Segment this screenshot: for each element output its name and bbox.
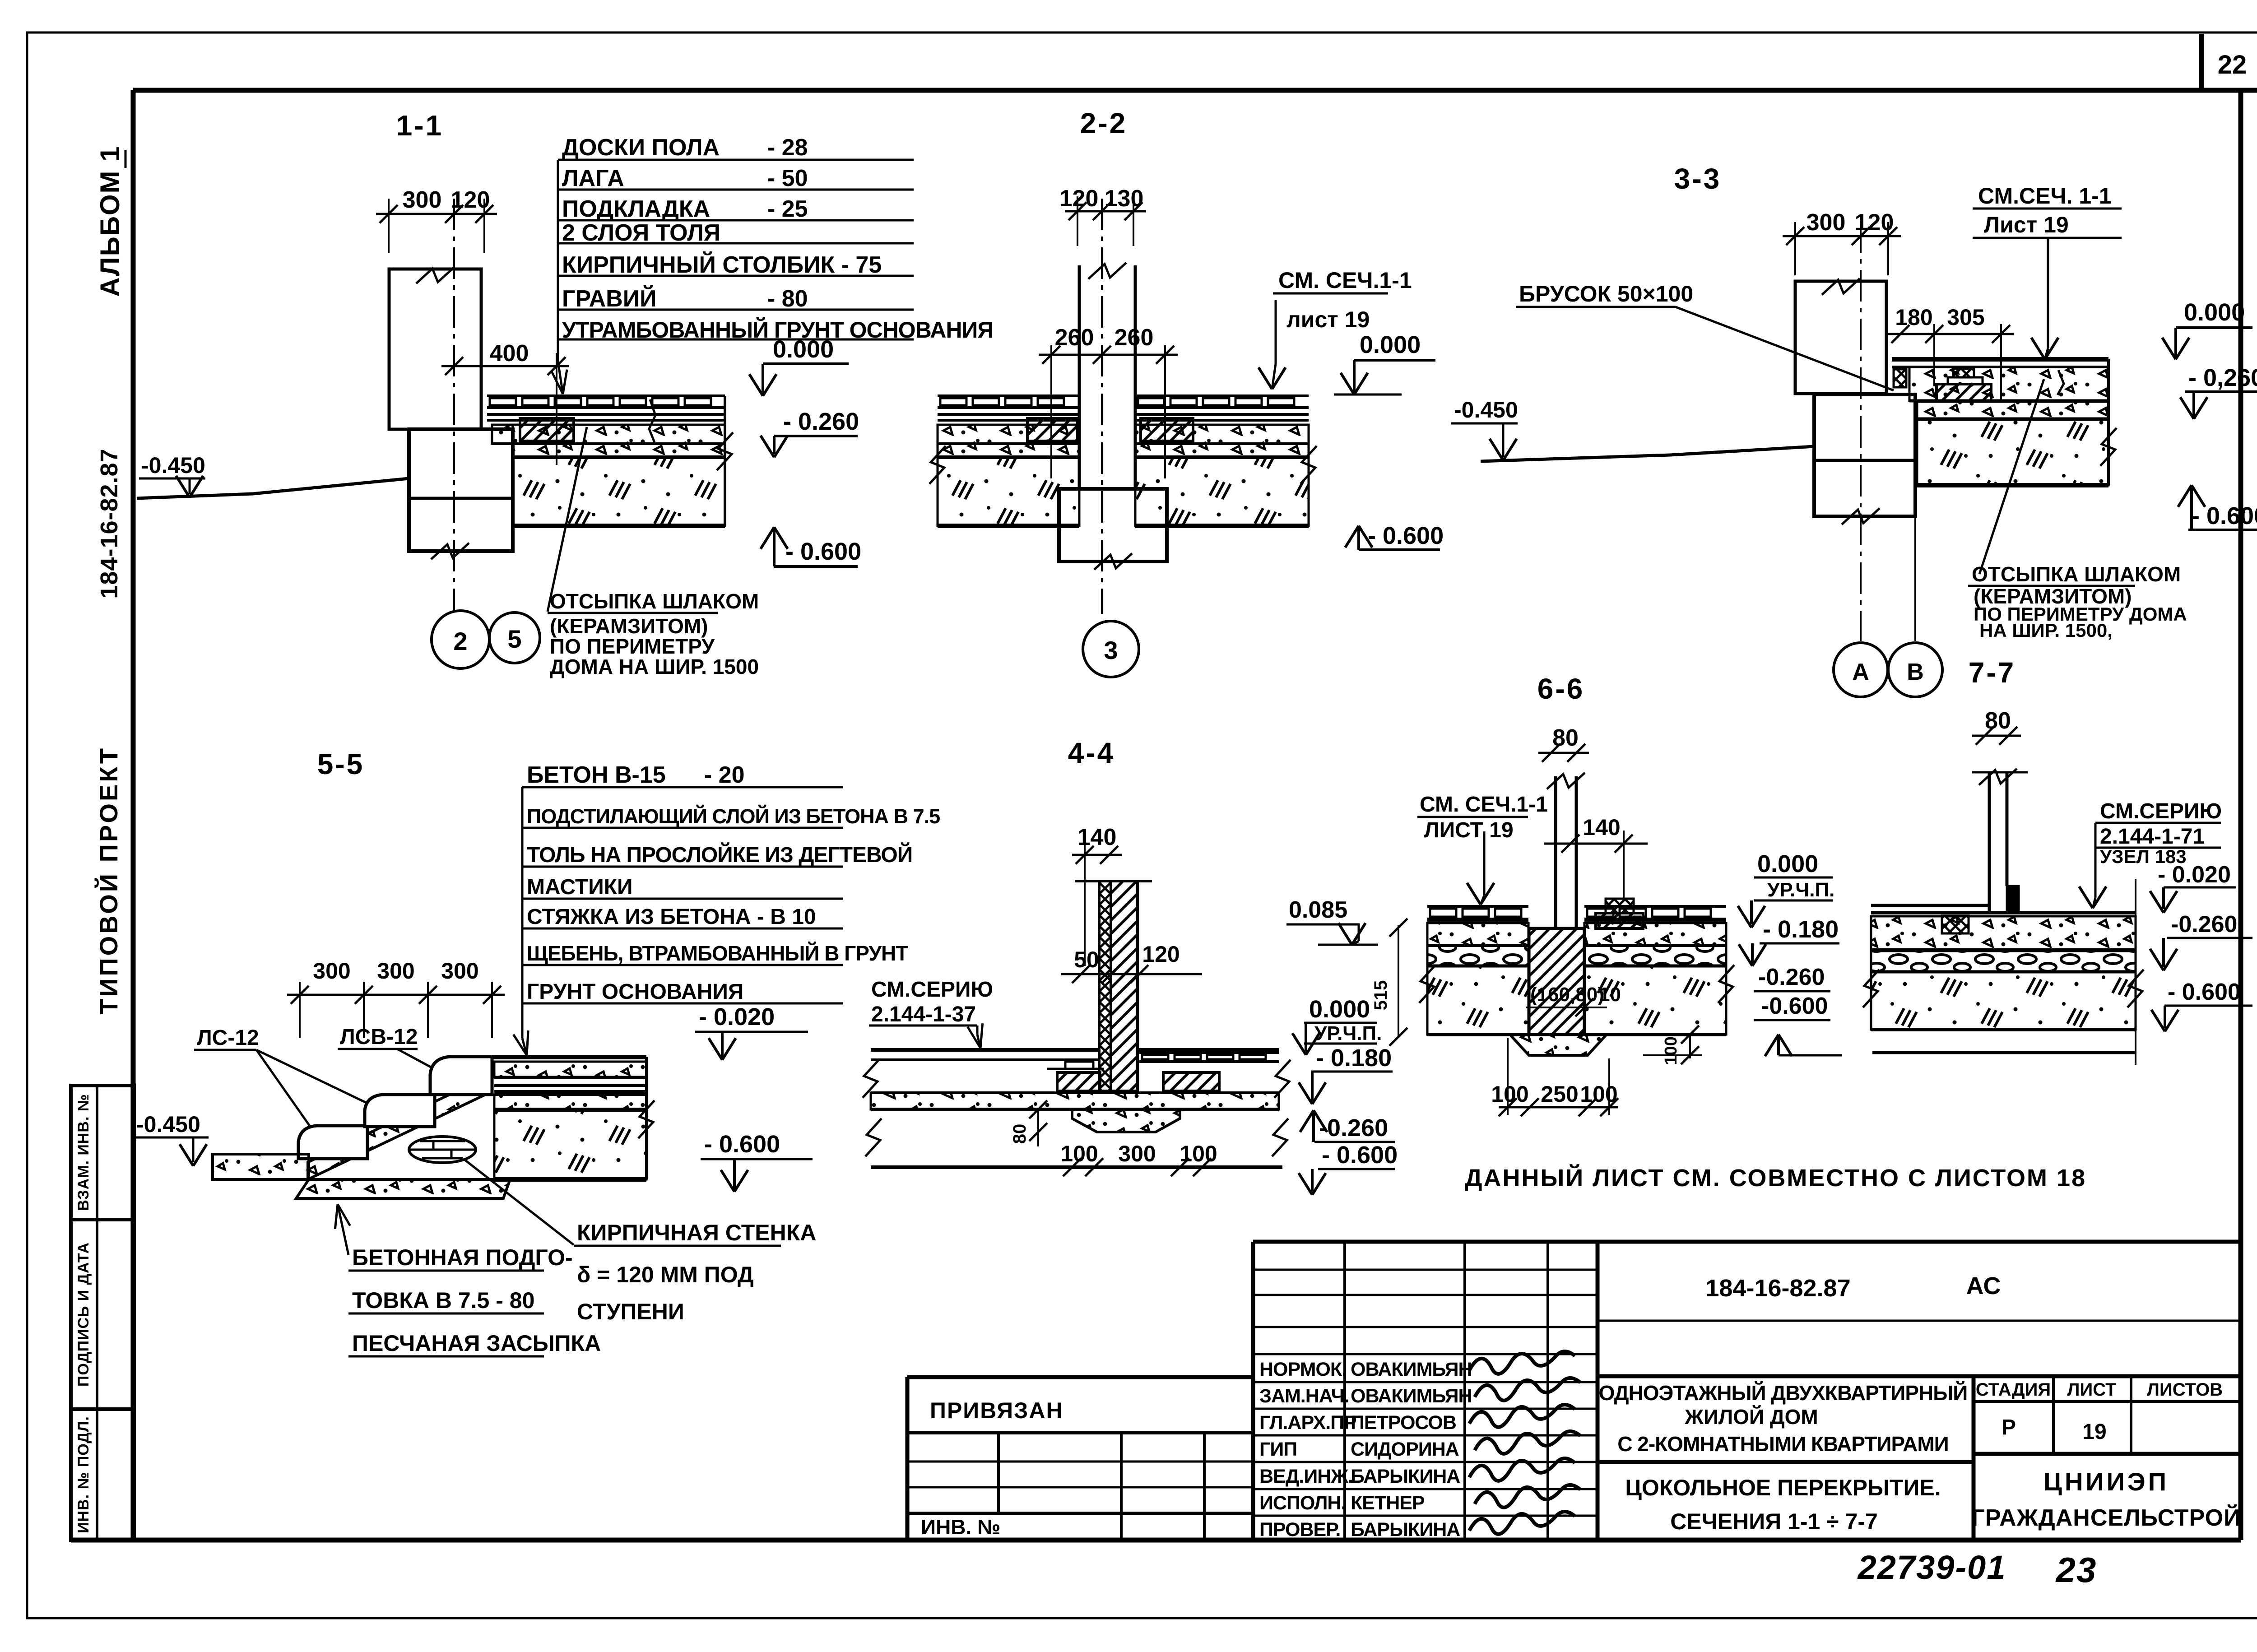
svg-text:КИРПИЧНЫЙ СТОЛБИК - 75: КИРПИЧНЫЙ СТОЛБИК - 75 [562,251,882,278]
step block 2 [365,1095,435,1127]
подкладка block right 4-4 [1163,1072,1219,1091]
sloped stringer 5-5 [308,1074,492,1179]
svg-text:В: В [1907,659,1924,685]
svg-text:ТИПОВОЙ ПРОЕКТ: ТИПОВОЙ ПРОЕКТ [94,746,123,1014]
leader отсыпка 3-3 [1979,379,2044,574]
svg-text:УР.Ч.П.: УР.Ч.П. [1767,879,1834,901]
axis line 3-3 (В) [1914,516,1916,641]
svg-text:-0.450: -0.450 [141,453,205,478]
svg-text:- 0.600: - 0.600 [2168,979,2241,1005]
подкладка block left 4-4 [1057,1072,1100,1091]
svg-text:СМ.СЕРИЮ: СМ.СЕРИЮ [871,978,993,1002]
svg-text:140: 140 [1583,815,1620,840]
svg-text:300: 300 [313,958,350,984]
svg-text:С 2-КОМНАТНЫМИ КВАРТИРАМИ: С 2-КОМНАТНЫМИ КВАРТИРАМИ [1617,1432,1948,1456]
svg-text:0.085: 0.085 [1289,897,1347,923]
extension line 7-7 [2135,879,2136,1065]
soil line 7-7 [1872,1051,2136,1054]
svg-text:1-1: 1-1 [396,109,444,142]
svg-text:100: 100 [1060,1141,1098,1166]
compacted soil 3-3 [1917,420,2108,485]
подкладка 7-7 [1942,916,1969,933]
svg-text:- 0.180: - 0.180 [1763,916,1839,943]
svg-text:6-6: 6-6 [1537,673,1585,705]
crack line 3-3 [2057,370,2064,395]
title block outer lines [1253,1240,2239,1244]
svg-text:ЛС-12: ЛС-12 [197,1026,259,1050]
svg-text:БАРЫКИНА: БАРЫКИНА [1351,1519,1460,1541]
svg-text:УР.Ч.П.: УР.Ч.П. [1314,1022,1382,1044]
svg-text:260: 260 [1115,325,1154,351]
svg-text:ПОДКЛАДКА: ПОДКЛАДКА [562,196,710,222]
svg-text:100: 100 [1662,1036,1681,1065]
svg-text:СТАДИЯ: СТАДИЯ [1976,1380,2051,1400]
svg-text:ГРАЖДАНСЕЛЬСТРОЙ: ГРАЖДАНСЕЛЬСТРОЙ [1972,1504,2241,1531]
svg-text:СЕЧЕНИЯ 1-1 ÷ 7-7: СЕЧЕНИЯ 1-1 ÷ 7-7 [1670,1509,1878,1534]
central pier 6-6 [1529,928,1584,1035]
base slab 5-5 [213,1154,309,1179]
svg-text:ОДНОЭТАЖНЫЙ ДВУХКВАРТИРНЫЙ: ОДНОЭТАЖНЫЙ ДВУХКВАРТИРНЫЙ [1599,1381,1968,1405]
axis bubble А [1834,643,1888,697]
svg-text:100: 100 [1491,1081,1528,1107]
svg-text:НОРМОК.: НОРМОК. [1259,1359,1347,1380]
svg-text:515: 515 [1371,980,1391,1011]
svg-text:- 0,260: - 0,260 [2188,364,2257,391]
svg-text:120: 120 [1142,942,1180,967]
floor slab 1-1 concrete bed [492,425,725,444]
svg-text:300: 300 [377,958,414,984]
svg-text:ЛИСТОВ: ЛИСТОВ [2147,1380,2223,1400]
svg-text:180: 180 [1895,305,1932,330]
svg-text:ЖИЛОЙ ДОМ: ЖИЛОЙ ДОМ [1684,1405,1818,1429]
svg-text:300: 300 [1807,209,1846,236]
title block name rows [1253,1269,1598,1271]
svg-text:0.000: 0.000 [1360,331,1421,358]
brick pillar 2-2 left [1027,418,1077,441]
svg-text:184-16-82.87: 184-16-82.87 [96,448,123,599]
svg-text:- 25: - 25 [767,196,808,222]
svg-text:300: 300 [1118,1141,1156,1166]
floor 6-6 right [1584,905,1726,908]
brick pillar 2-2 right [1141,418,1193,441]
svg-text:СМ. СЕЧ.1-1: СМ. СЕЧ.1-1 [1278,268,1412,293]
svg-text:- 0.600: - 0.600 [704,1131,780,1158]
svg-text:4-4: 4-4 [1068,737,1115,769]
svg-text:ПРИВЯЗАН: ПРИВЯЗАН [930,1398,1063,1423]
wall 3-3 [1795,281,1886,394]
svg-text:ГИП: ГИП [1259,1439,1297,1460]
svg-text:СТЯЖКА ИЗ БЕТОНА - В 10: СТЯЖКА ИЗ БЕТОНА - В 10 [527,905,816,929]
svg-text:ВЕД.ИНЖ.: ВЕД.ИНЖ. [1259,1466,1353,1487]
svg-text:АЛЬБОМ 1: АЛЬБОМ 1 [95,145,125,297]
svg-text:- 0.600: - 0.600 [1322,1142,1398,1169]
svg-text:СМ.СЕРИЮ: СМ.СЕРИЮ [2100,799,2222,823]
svg-text:ГРУНТ ОСНОВАНИЯ: ГРУНТ ОСНОВАНИЯ [527,980,743,1004]
svg-text:ОТСЫПКА ШЛАКОМ: ОТСЫПКА ШЛАКОМ [550,589,759,613]
floor slab 3-3 boards [1892,357,2108,362]
floor 4-4 right [1138,1048,1279,1052]
svg-text:БЕТОННАЯ ПОДГО-: БЕТОННАЯ ПОДГО- [352,1245,573,1270]
svg-text:ИНВ. №: ИНВ. № [921,1515,1000,1539]
gravel layer 2-2 right [1135,444,1309,457]
svg-text:ЛИСТ 19: ЛИСТ 19 [1424,818,1514,842]
foundation pit 4-4 [1072,1109,1180,1132]
svg-text:АС: АС [1966,1272,2001,1299]
note бетонная подготовка 5-5 [338,1204,348,1255]
gravel layer 2-2 left [938,444,1079,457]
svg-text:5: 5 [507,625,521,653]
svg-text:- 20: - 20 [704,762,745,788]
svg-text:ГЛ.АРХ.ПР: ГЛ.АРХ.ПР [1259,1412,1356,1434]
svg-text:ЦНИИЭП: ЦНИИЭП [2043,1467,2169,1496]
wall 1-1 [389,269,481,429]
pier pit 6-6 [1510,1035,1607,1055]
svg-text:- 0.020: - 0.020 [699,1003,775,1030]
svg-text:- 0.600: - 0.600 [1368,522,1444,549]
floor 6-6 left [1427,905,1528,908]
compacted soil layer 1-1 [513,457,725,526]
svg-text:2.144-1-37: 2.144-1-37 [871,1002,976,1026]
svg-text:5-5: 5-5 [317,748,365,780]
svg-text:2.144-1-71: 2.144-1-71 [2100,825,2205,849]
svg-text:ПРОВЕР.: ПРОВЕР. [1259,1519,1340,1541]
svg-text:ДАННЫЙ ЛИСТ СМ. СОВМЕСТНО С ЛИ: ДАННЫЙ ЛИСТ СМ. СОВМЕСТНО С ЛИСТОМ 18 [1465,1164,2086,1192]
svg-text:0.000: 0.000 [2184,299,2245,326]
svg-text:ЦОКОЛЬНОЕ ПЕРЕКРЫТИЕ.: ЦОКОЛЬНОЕ ПЕРЕКРЫТИЕ. [1625,1475,1941,1500]
svg-text:-0.260: -0.260 [2171,911,2237,937]
svg-text:ВЗАМ. ИНВ. №: ВЗАМ. ИНВ. № [75,1094,92,1211]
svg-text:лист 19: лист 19 [1286,307,1370,332]
svg-text:НА ШИР. 1500,: НА ШИР. 1500, [1979,620,2113,641]
svg-text:- 28: - 28 [767,135,808,161]
svg-text:СМ.СЕЧ. 1-1: СМ.СЕЧ. 1-1 [1978,183,2112,209]
svg-text:22739-01: 22739-01 [1857,1549,2006,1586]
svg-text:-0.260: -0.260 [1319,1114,1388,1142]
compacted soil 2-2 right [1135,457,1309,526]
svg-text:ЛСВ-12: ЛСВ-12 [340,1025,418,1049]
svg-text:ГРАВИЙ: ГРАВИЙ [562,285,656,312]
svg-text:ПЕТРОСОВ: ПЕТРОСОВ [1351,1412,1456,1434]
svg-text:3-3: 3-3 [1674,162,1722,195]
svg-text:БРУСОК 50×100: БРУСОК 50×100 [1519,281,1693,306]
gravel layer 1-1 [513,444,725,457]
floor slab 2-2 right concrete [1135,425,1309,444]
svg-text:БЕТОН В-15: БЕТОН В-15 [527,762,666,788]
axis line 1-1 [453,199,455,610]
svg-text:ЛАГА: ЛАГА [562,165,624,191]
step block 1 [298,1126,367,1159]
svg-text:ПЕСЧАНАЯ ЗАСЫПКА: ПЕСЧАНАЯ ЗАСЫПКА [352,1331,601,1356]
svg-text:10: 10 [1599,984,1621,1006]
column 2-2 [1078,265,1081,489]
svg-text:Р: Р [2002,1415,2016,1439]
svg-text:7-7: 7-7 [1969,656,2016,689]
svg-text:23: 23 [2055,1550,2097,1590]
step block 3 [430,1057,492,1095]
svg-text:300: 300 [403,187,442,213]
axis bubble В [1888,643,1942,697]
floor slab 2-2 left boards [938,394,1079,397]
soil bottom line 4-4 [871,1165,1282,1169]
floor 7-7 [1871,904,1989,907]
border frame inner (drawing field) [133,88,2257,93]
title block right section lines [1598,1320,2239,1322]
svg-text:3: 3 [1104,636,1118,664]
axis bubble 3 [1083,621,1139,677]
svg-text:- 50: - 50 [767,165,808,191]
floor 4-4 left [871,1048,1099,1052]
plinth 7-7 [2007,886,2019,913]
svg-text:ТОВКА В 7.5 - 80: ТОВКА В 7.5 - 80 [352,1288,534,1313]
foundation 1-1 [409,429,513,551]
svg-text:184-16-82.87: 184-16-82.87 [1705,1275,1850,1302]
svg-text:ПОДПИСЬ И ДАТА: ПОДПИСЬ И ДАТА [75,1242,92,1387]
svg-text:ЗАМ.НАЧ.: ЗАМ.НАЧ. [1259,1385,1349,1407]
floor slab 1-1 boards [487,394,725,397]
compacted soil 2-2 left [938,457,1079,526]
svg-text:-0.450: -0.450 [1454,397,1518,422]
partition 7-7 [1972,771,2028,774]
partition 6-6 [1554,776,1557,928]
bed layer 4-4 [871,1093,1279,1109]
axis line 3-3 (А) [1860,221,1862,641]
svg-text:- 0.180: - 0.180 [1316,1044,1392,1072]
svg-text:ДОСКИ ПОЛА: ДОСКИ ПОЛА [562,135,720,161]
svg-text:ИНВ. № ПОДЛ.: ИНВ. № ПОДЛ. [75,1416,92,1533]
подкладка 3-3 [1953,369,1974,377]
crack line 1-1 [649,399,655,442]
svg-text:- 0.600: - 0.600 [2192,502,2257,529]
svg-text:КИРПИЧНАЯ СТЕНКА: КИРПИЧНАЯ СТЕНКА [577,1220,816,1245]
foundation 3-3 [1814,394,1915,516]
svg-text:ОТСЫПКА ШЛАКОМ: ОТСЫПКА ШЛАКОМ [1972,562,2181,586]
svg-text:80: 80 [1985,708,2011,734]
svg-text:400: 400 [490,340,529,367]
svg-text:БАРЫКИНА: БАРЫКИНА [1351,1466,1460,1487]
svg-text:19: 19 [2082,1420,2106,1444]
брусок hatched 3-3 [1894,369,1906,387]
sheet number box 22 [2199,34,2204,90]
svg-text:80: 80 [1010,1124,1030,1144]
foundation 2-2 [1059,489,1167,561]
floor slab 2-2 right boards [1135,394,1309,397]
svg-text:А: А [1852,659,1869,685]
partition wall 4-4 [1075,880,1152,882]
svg-text:250: 250 [1541,1081,1578,1107]
svg-text:ДОМА НА ШИР. 1500: ДОМА НА ШИР. 1500 [550,655,759,678]
svg-text:Лист 19: Лист 19 [1984,212,2069,237]
gravel layer 3-3 [1917,402,2108,419]
svg-text:- 0.020: - 0.020 [2158,862,2231,888]
note кирпичная стенка 5-5 [465,1160,574,1245]
svg-text:ТОЛЬ НА ПРОСЛОЙКЕ ИЗ ДЕГТЕВОЙ: ТОЛЬ НА ПРОСЛОЙКЕ ИЗ ДЕГТЕВОЙ [527,842,912,867]
svg-text:δ = 120 ММ ПОД: δ = 120 ММ ПОД [577,1262,754,1287]
ground line 1-1 [137,478,409,498]
svg-text:ОВАКИМЬЯН: ОВАКИМЬЯН [1351,1359,1472,1380]
floor slab 2-2 left concrete [938,425,1079,444]
svg-text:0.000: 0.000 [1309,996,1370,1023]
svg-text:ПОДСТИЛАЮЩИЙ СЛОЙ ИЗ БЕТОНА В: ПОДСТИЛАЮЩИЙ СЛОЙ ИЗ БЕТОНА В 7.5 [527,805,940,828]
svg-text:СМ. СЕЧ.1-1: СМ. СЕЧ.1-1 [1420,793,1548,817]
svg-text:22: 22 [2218,50,2247,79]
svg-text:ЛИСТ: ЛИСТ [2067,1380,2116,1400]
svg-text:2 СЛОЯ ТОЛЯ: 2 СЛОЯ ТОЛЯ [562,220,720,246]
floor bed 3-3 [1909,367,2108,401]
svg-text:- 0.260: - 0.260 [783,408,859,435]
svg-text:140: 140 [1077,824,1117,850]
svg-text:300: 300 [441,958,478,984]
svg-text:ЩЕБЕНЬ, ВТРАМБОВАННЫЙ В ГРУНТ: ЩЕБЕНЬ, ВТРАМБОВАННЫЙ В ГРУНТ [527,942,908,965]
svg-text:- 80: - 80 [767,286,808,312]
brick wall oval 5-5 [409,1137,476,1163]
svg-text:-0.450: -0.450 [136,1112,200,1137]
svg-text:(160,80): (160,80) [1530,984,1604,1006]
axis bubble 2 [432,611,489,668]
svg-text:-0.260: -0.260 [1758,964,1825,990]
leader отсыпка шлаком 1-1 [548,427,587,612]
floor slab right 5-5 [492,1055,646,1059]
svg-text:ОВАКИМЬЯН: ОВАКИМЬЯН [1351,1385,1472,1407]
brick pillar 1-1 [520,418,574,441]
svg-text:-0.600: -0.600 [1761,993,1828,1019]
ground line 3-3 [1481,446,1814,461]
svg-text:0.000: 0.000 [1757,850,1818,877]
svg-text:КЕТНЕР: КЕТНЕР [1351,1492,1425,1514]
svg-text:МАСТИКИ: МАСТИКИ [527,875,633,899]
axis line 2-2 [1101,199,1103,614]
svg-text:2-2: 2-2 [1080,107,1128,139]
svg-text:СТУПЕНИ: СТУПЕНИ [577,1299,684,1324]
axis bubble 5 [489,613,540,663]
svg-text:СИДОРИНА: СИДОРИНА [1351,1439,1459,1460]
подкладка 6-6 [1596,913,1643,928]
margin stamp boxes [71,1086,134,1540]
title block left section lines [907,1431,1253,1434]
svg-text:2: 2 [453,627,467,655]
svg-text:305: 305 [1947,305,1984,330]
signatures [1469,1351,1575,1374]
sand pit 5-5 [296,1179,510,1198]
svg-text:- 0.600: - 0.600 [785,538,861,565]
svg-text:120: 120 [1059,186,1099,212]
svg-text:ИСПОЛН.: ИСПОЛН. [1259,1492,1346,1514]
